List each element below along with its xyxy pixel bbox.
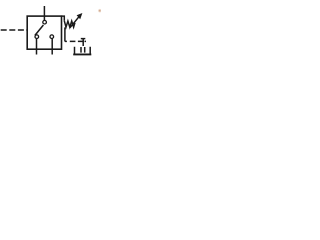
actuator cup bottom xyxy=(73,53,91,55)
spring R (zigzag) xyxy=(64,21,75,27)
wire: left terminal stem xyxy=(36,39,38,55)
switch blade xyxy=(35,25,44,35)
adjustment arrow shaft xyxy=(70,16,80,28)
wire: right terminal stem xyxy=(51,39,53,55)
wire: dashed mechanical link (left) xyxy=(1,29,28,31)
node: left contact circle xyxy=(35,35,39,39)
node: right contact circle xyxy=(50,35,54,39)
adjustment arrowhead xyxy=(77,13,83,19)
spring hanger (top edge extension) xyxy=(62,16,65,21)
actuator guide pins xyxy=(81,47,85,53)
wire: dashed link to actuator xyxy=(65,40,86,42)
wire: link down from spring xyxy=(64,27,66,41)
actuator cup sides xyxy=(75,47,91,54)
wire: top terminal stem xyxy=(43,6,45,20)
actuator plunger T xyxy=(81,39,86,46)
enclosure box xyxy=(27,16,61,49)
node: top contact circle xyxy=(43,20,47,24)
smudge artifact xyxy=(98,9,102,13)
